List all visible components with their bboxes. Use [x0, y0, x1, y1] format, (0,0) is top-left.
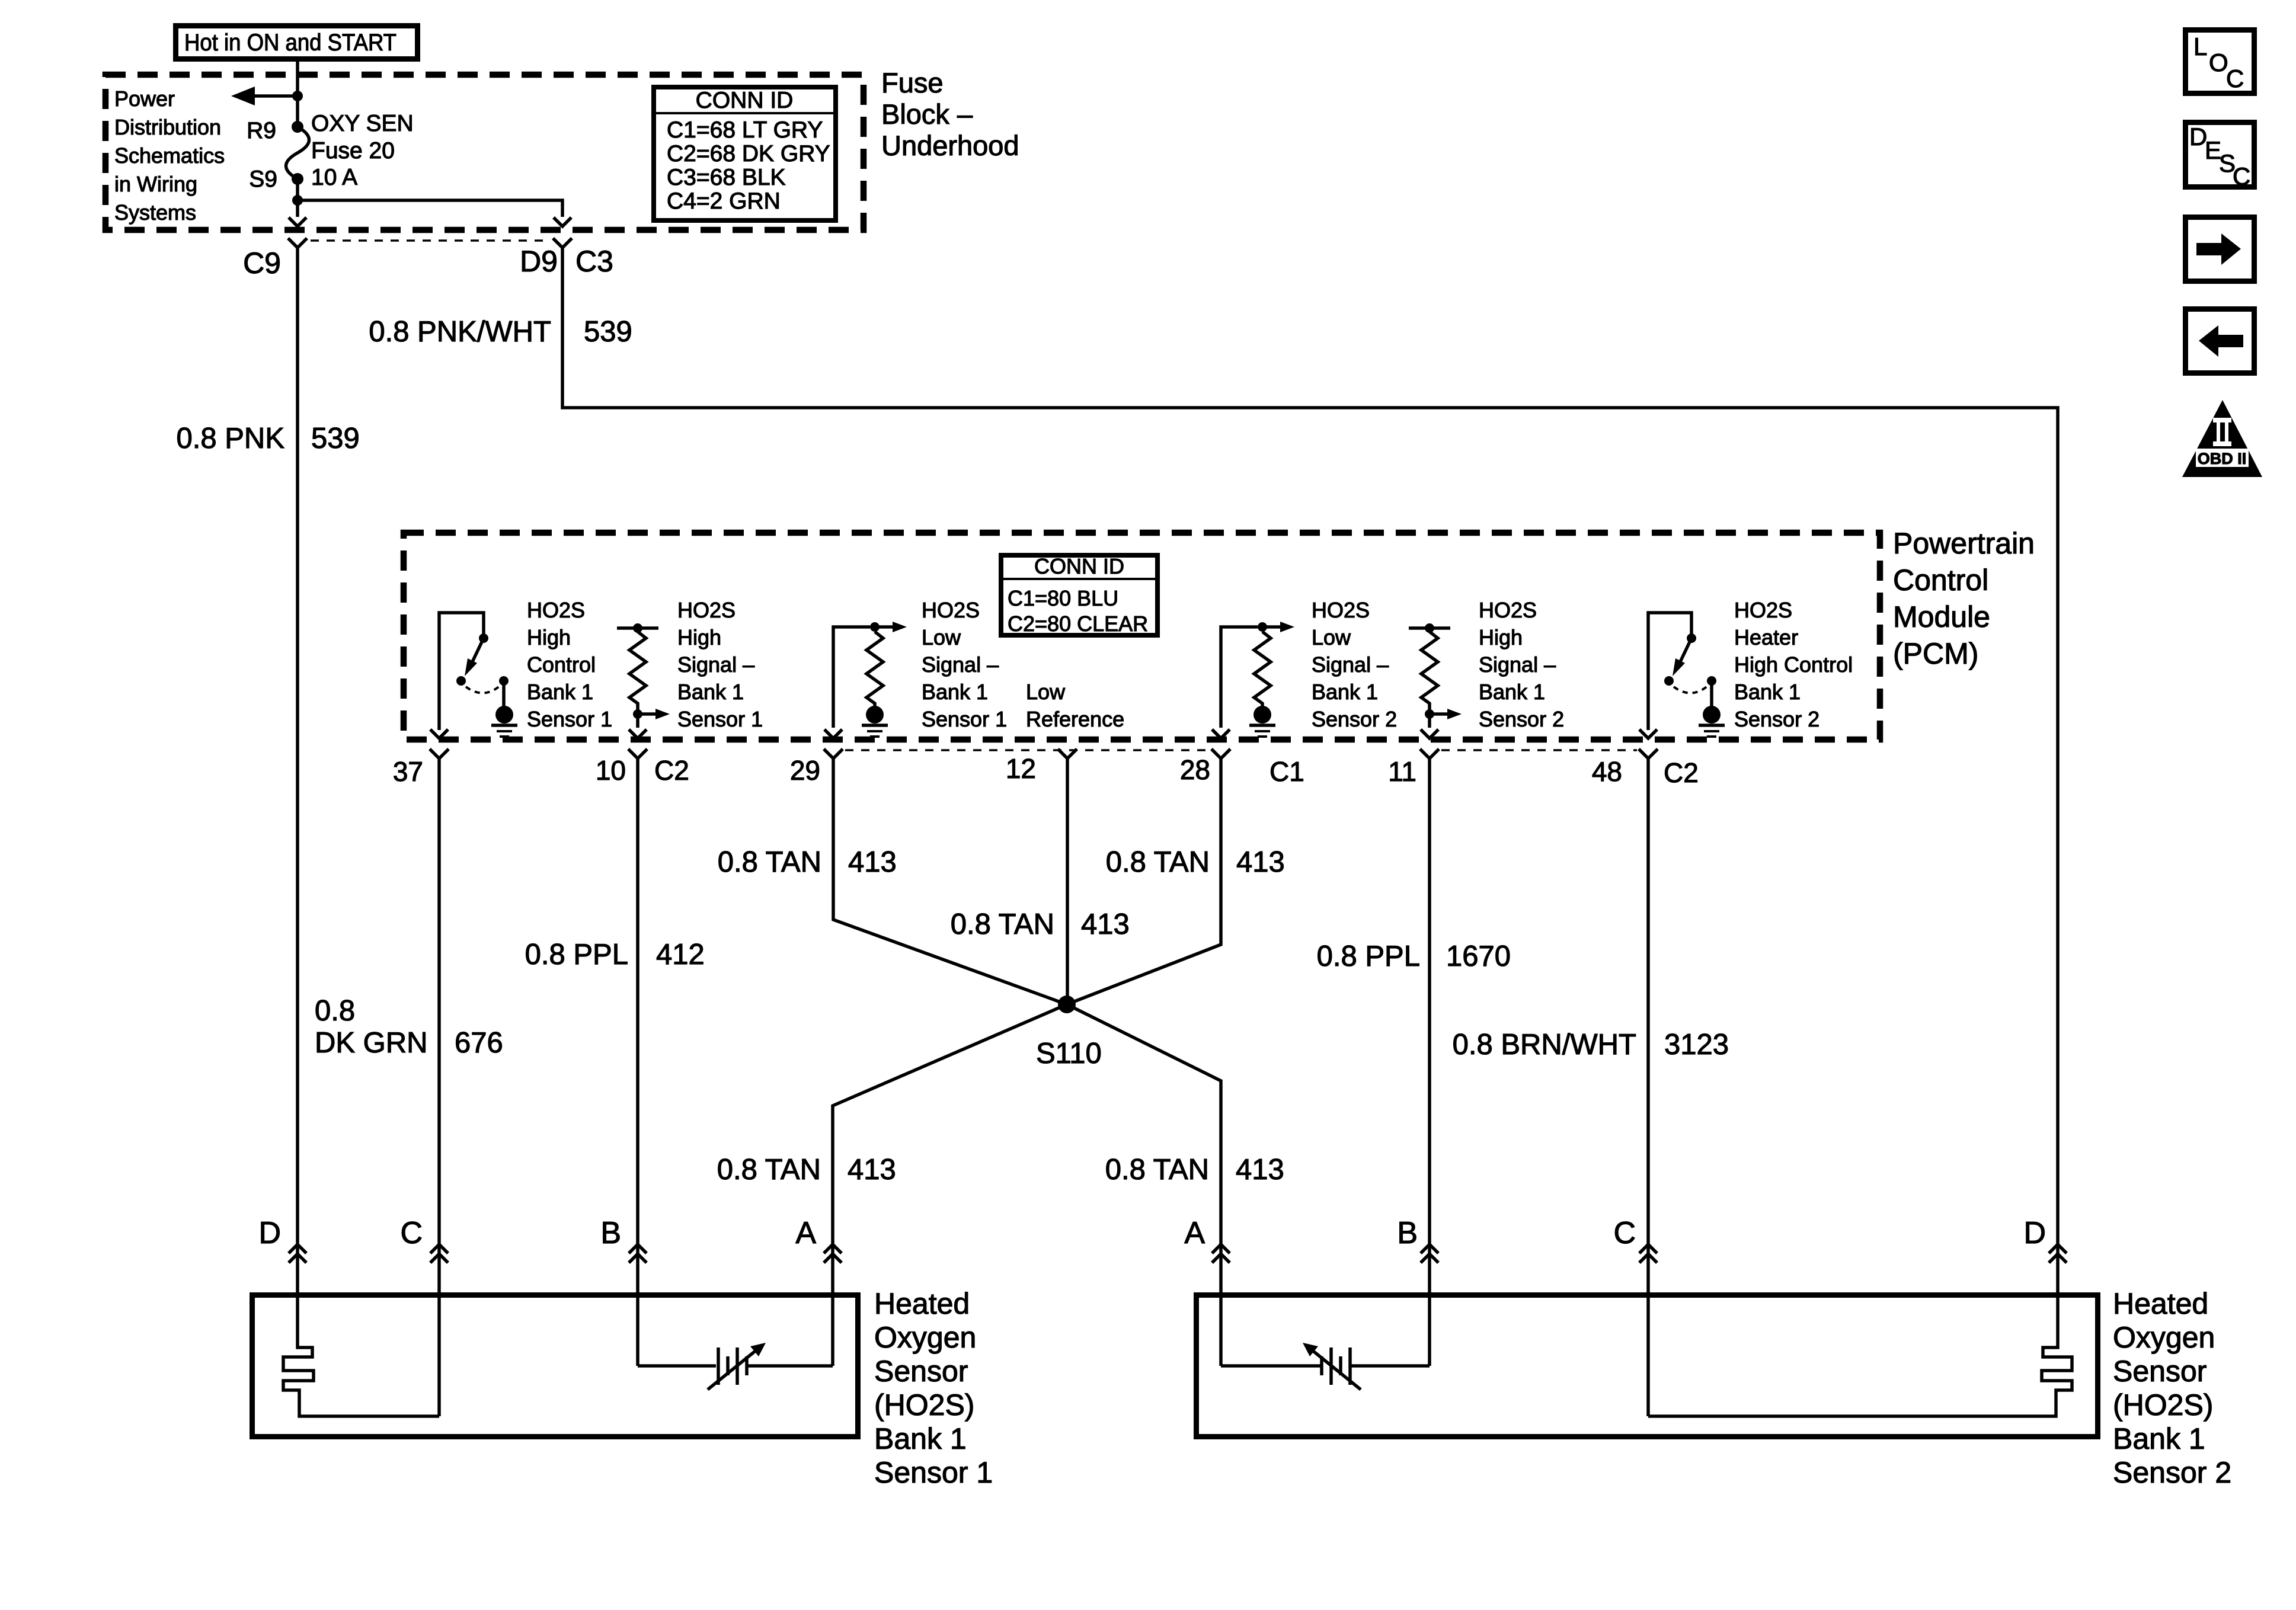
wire from fuse S9 down — [292, 179, 303, 217]
svg-text:C: C — [1613, 1216, 1636, 1250]
pin letter A sensor2 — [1184, 1216, 1205, 1250]
svg-text:10: 10 — [596, 755, 626, 786]
pin letter D sensor1 — [258, 1216, 281, 1250]
svg-text:Hot in ON and START: Hot in ON and START — [184, 30, 396, 56]
splice S110 — [1058, 996, 1076, 1013]
svg-text:Sensor 2: Sensor 2 — [1734, 707, 1819, 731]
svg-text:Control: Control — [1893, 564, 1988, 597]
svg-text:A: A — [795, 1216, 816, 1250]
svg-text:B: B — [1397, 1216, 1418, 1250]
connector label C9 — [243, 247, 281, 280]
connector chevrons sensor2 pin A — [1212, 1244, 1230, 1263]
svg-text:HO2S: HO2S — [1479, 598, 1537, 622]
svg-text:HO2S: HO2S — [1734, 598, 1792, 622]
switch U2 HO2S heater high control bank1 sensor2 — [1648, 613, 1716, 730]
connector Y pin 12 — [1058, 749, 1077, 758]
svg-text:High: High — [527, 625, 571, 649]
svg-text:Sensor 1: Sensor 1 — [527, 707, 612, 731]
svg-text:Sensor: Sensor — [2113, 1355, 2207, 1388]
wire label 0.8 TAN 413 center — [951, 908, 1130, 940]
connector chevrons sensor2 pin D — [2049, 1244, 2067, 1263]
svg-text:C3=68 BLK: C3=68 BLK — [667, 165, 786, 190]
wire C3 pink white to right sensor — [562, 248, 2058, 1292]
pin label 11 — [1388, 756, 1416, 787]
label Heated Oxygen Sensor (HO2S) Bank 1 Sensor 2 — [2113, 1287, 2231, 1489]
svg-text:C2=68 DK GRY: C2=68 DK GRY — [667, 141, 830, 167]
svg-text:0.8 TAN: 0.8 TAN — [717, 1154, 821, 1186]
conn id table fuse block — [654, 87, 836, 220]
svg-text:29: 29 — [790, 755, 820, 786]
pin label 29 — [790, 755, 820, 786]
svg-text:OXY SEN: OXY SEN — [311, 111, 414, 136]
svg-text:37: 37 — [393, 756, 423, 787]
pin letter D sensor2 — [2023, 1216, 2046, 1250]
svg-text:C4=2 GRN: C4=2 GRN — [667, 188, 781, 214]
fuse value label OXY SEN Fuse 20 10 A — [311, 111, 414, 190]
svg-text:0.8 PNK/WHT: 0.8 PNK/WHT — [369, 316, 551, 348]
svg-text:10 A: 10 A — [311, 165, 357, 190]
wire pin 37 to sensor1 pin C, dk grn — [437, 758, 441, 1292]
connector chevrons sensor2 pin C — [1639, 1244, 1657, 1263]
connector Y at C9 — [288, 238, 307, 248]
arrow at PCM border pin 29 — [824, 729, 842, 738]
svg-text:412: 412 — [656, 939, 705, 971]
label Fuse Block - Underhood — [881, 67, 1019, 161]
icon next arrow button — [2186, 217, 2255, 281]
ground inside PCM at switch U1 — [491, 706, 517, 737]
svg-text:Sensor 2: Sensor 2 — [2113, 1456, 2231, 1489]
connector chevrons sensor2 pin B — [1421, 1244, 1438, 1263]
svg-text:in Wiring: in Wiring — [114, 172, 197, 196]
terminal label R9 — [247, 118, 276, 143]
ground inside PCM at resistor R3 — [1249, 706, 1275, 737]
svg-text:Bank 1: Bank 1 — [874, 1422, 967, 1455]
pin label 48 — [1592, 756, 1622, 787]
pin label C1 — [1269, 756, 1304, 787]
resistor R2 HO2S low signal bank1 sensor1 — [833, 622, 907, 728]
pin letter A sensor1 — [795, 1216, 816, 1250]
svg-text:Block –: Block – — [881, 98, 973, 130]
wire pin 28 to splice S110 — [1067, 758, 1221, 1004]
wire pin 48 to sensor2 pin C, brn wht — [1646, 758, 1650, 1292]
svg-text:Low: Low — [1312, 625, 1351, 649]
wire pin 12 to splice S110 — [1066, 758, 1069, 1004]
svg-text:D: D — [2023, 1216, 2046, 1250]
svg-text:C1=68 LT GRY: C1=68 LT GRY — [667, 117, 823, 143]
svg-text:413: 413 — [848, 1154, 896, 1186]
svg-text:0.8 TAN: 0.8 TAN — [951, 908, 1054, 940]
svg-text:Low: Low — [1026, 680, 1066, 704]
wire S110 to sensor2 pin A — [1067, 1004, 1221, 1292]
svg-text:C: C — [2233, 162, 2250, 190]
label HO2S Low Signal - Bank 1 Sensor 2 — [1312, 598, 1397, 731]
pin label 12 — [1006, 753, 1036, 784]
wire label 0.8 TAN 413 lower right — [1105, 1154, 1284, 1186]
label HO2S Heater High Control Bank 1 Sensor 2 — [1734, 598, 1853, 731]
svg-text:Schematics: Schematics — [114, 143, 225, 168]
svg-text:High Control: High Control — [1734, 652, 1853, 677]
wire pin 10 to sensor1 pin B, ppl — [636, 758, 639, 1292]
svg-text:A: A — [1184, 1216, 1205, 1250]
svg-text:Oxygen: Oxygen — [2113, 1321, 2215, 1354]
icon previous arrow button — [2186, 309, 2255, 373]
connector label C3 — [575, 245, 613, 278]
connector Y pin 37 — [430, 749, 449, 758]
pin label 37 — [393, 756, 423, 787]
svg-text:HO2S: HO2S — [1312, 598, 1370, 622]
label HO2S Low Signal - Bank 1 Sensor 1 — [922, 598, 1007, 731]
svg-text:Signal –: Signal – — [1479, 652, 1556, 677]
connector chevrons sensor1 pin B — [629, 1244, 647, 1263]
svg-text:3123: 3123 — [1664, 1029, 1729, 1061]
label HO2S High Signal - Bank 1 Sensor 1 — [677, 598, 763, 731]
svg-text:Sensor 1: Sensor 1 — [922, 707, 1007, 731]
svg-text:Power: Power — [114, 87, 175, 111]
svg-text:Bank 1: Bank 1 — [1312, 680, 1378, 704]
svg-text:O: O — [2209, 49, 2228, 76]
svg-text:C3: C3 — [575, 245, 613, 278]
svg-text:Module: Module — [1893, 600, 1990, 633]
svg-text:Sensor 2: Sensor 2 — [1479, 707, 1564, 731]
connector dashed line C9 to D9 — [311, 239, 549, 242]
wire pin 29 to splice S110 — [833, 758, 1067, 1004]
label HO2S High Control Bank 1 Sensor 1 — [527, 598, 612, 731]
svg-text:12: 12 — [1006, 753, 1036, 784]
svg-text:(HO2S): (HO2S) — [874, 1388, 974, 1422]
icon LOC button — [2186, 30, 2255, 94]
svg-text:(PCM): (PCM) — [1893, 637, 1978, 670]
pin letter B sensor1 — [600, 1216, 621, 1250]
svg-text:DK GRN: DK GRN — [315, 1027, 428, 1059]
wire label 0.8 PNK 539 — [177, 422, 360, 454]
svg-text:C1=80 BLU: C1=80 BLU — [1008, 586, 1118, 610]
svg-text:CONN ID: CONN ID — [1034, 554, 1124, 578]
connector label D9 — [520, 245, 558, 278]
svg-text:539: 539 — [311, 422, 360, 454]
svg-text:0.8: 0.8 — [315, 995, 355, 1027]
connector chevrons sensor1 pin C — [430, 1244, 448, 1263]
svg-text:676: 676 — [455, 1027, 503, 1059]
svg-text:Sensor 1: Sensor 1 — [677, 707, 763, 731]
pin label 28 — [1180, 754, 1210, 785]
svg-text:1670: 1670 — [1446, 940, 1511, 972]
splice label S110 — [1036, 1038, 1102, 1070]
svg-text:CONN ID: CONN ID — [696, 88, 794, 113]
resistor R3 HO2S low signal bank1 sensor2 — [1221, 622, 1294, 728]
svg-text:413: 413 — [1081, 908, 1130, 940]
svg-text:Sensor: Sensor — [874, 1355, 968, 1388]
svg-text:Heated: Heated — [2113, 1287, 2208, 1320]
svg-text:Bank 1: Bank 1 — [1479, 680, 1545, 704]
oxygen sensing element sensor1 — [638, 1292, 833, 1390]
terminal label S9 — [249, 167, 277, 192]
svg-text:Heater: Heater — [1734, 625, 1798, 649]
svg-text:0.8 PPL: 0.8 PPL — [1317, 940, 1420, 972]
svg-text:539: 539 — [584, 316, 632, 348]
connector chevrons sensor1 pin D — [289, 1244, 306, 1263]
svg-text:Low: Low — [922, 625, 961, 649]
pin label C2 left — [654, 755, 689, 786]
svg-text:Sensor 1: Sensor 1 — [874, 1456, 993, 1489]
svg-text:S110: S110 — [1036, 1038, 1102, 1070]
svg-text:C9: C9 — [243, 247, 281, 280]
heater element sensor1 — [283, 1292, 439, 1416]
svg-text:Signal –: Signal – — [677, 652, 754, 677]
connector Y pin 29 — [824, 749, 843, 758]
wire label 0.8 DK GRN 676 — [315, 995, 503, 1059]
ground inside PCM at resistor R2 — [862, 706, 888, 737]
conn id table pcm — [1001, 554, 1157, 636]
arrow at PCM border pin 10 — [629, 729, 647, 738]
label Power Distribution Schematics in Wiring Systems — [114, 87, 225, 225]
svg-text:S9: S9 — [249, 167, 277, 192]
svg-text:HO2S: HO2S — [677, 598, 736, 622]
fuse OXY SEN Fuse 20 10 A — [286, 121, 309, 185]
wire pin 11 to sensor2 pin B, ppl — [1428, 758, 1431, 1292]
svg-text:Systems: Systems — [114, 200, 196, 225]
wire label 0.8 BRN/WHT 3123 — [1453, 1029, 1729, 1061]
fuse block dashed box — [105, 75, 864, 230]
PCM dashed box — [404, 533, 1880, 740]
ground inside PCM at switch U2 — [1699, 706, 1725, 737]
arrow to power distribution — [231, 87, 303, 105]
arrow at PCM border pin 37 — [430, 729, 448, 738]
svg-text:Control: Control — [527, 652, 596, 677]
arrow at fuse block border C9 — [289, 217, 306, 226]
label HO2S High Signal - Bank 1 Sensor 2 — [1479, 598, 1564, 731]
svg-text:11: 11 — [1388, 756, 1416, 787]
wire C9 pink to left sensor — [296, 248, 299, 1292]
pin label 10 — [596, 755, 626, 786]
svg-text:Bank 1: Bank 1 — [2113, 1422, 2205, 1455]
label box Hot in ON and START — [176, 26, 418, 59]
svg-text:0.8 TAN: 0.8 TAN — [1106, 846, 1210, 878]
svg-text:0.8 TAN: 0.8 TAN — [718, 846, 821, 878]
svg-text:High: High — [1479, 625, 1523, 649]
svg-text:Bank 1: Bank 1 — [527, 680, 593, 704]
connector C1 dashed line — [845, 749, 1210, 751]
arrow at PCM border pin 11 — [1421, 729, 1438, 738]
svg-text:Oxygen: Oxygen — [874, 1321, 976, 1354]
pin label C2 right — [1664, 757, 1699, 788]
sensor2 box heated oxygen sensor bank1 sensor2 — [1197, 1295, 2098, 1437]
svg-text:Fuse: Fuse — [881, 67, 944, 98]
svg-text:C1: C1 — [1269, 756, 1304, 787]
wire label 0.8 TAN 413 upper right — [1106, 846, 1285, 878]
svg-text:0.8 PPL: 0.8 PPL — [525, 939, 628, 971]
wire S110 to sensor1 pin A — [833, 1004, 1067, 1292]
svg-text:C: C — [400, 1216, 423, 1250]
wire label 0.8 PNK/WHT 539 — [369, 316, 632, 348]
oxygen sensing element sensor2 — [1221, 1292, 1430, 1390]
svg-text:Sensor 2: Sensor 2 — [1312, 707, 1397, 731]
svg-text:413: 413 — [1236, 1154, 1284, 1186]
connector Y pin 48 — [1639, 749, 1658, 758]
wire from hot box into fuse block — [296, 62, 299, 127]
connector C2 dashed line — [1441, 749, 1637, 751]
wire label 0.8 PPL 412 — [525, 939, 705, 971]
label Low Reference — [1026, 680, 1124, 731]
arrow at PCM border pin 48 — [1639, 729, 1657, 738]
svg-text:0.8 TAN: 0.8 TAN — [1105, 1154, 1209, 1186]
switch U1 HO2S high control bank1 sensor1 — [439, 613, 509, 730]
svg-text:Fuse 20: Fuse 20 — [311, 138, 395, 164]
icon DESC button — [2186, 123, 2255, 191]
connector chevrons sensor1 pin A — [824, 1244, 842, 1263]
arrow at PCM border pin 28 — [1212, 729, 1230, 738]
svg-text:0.8 BRN/WHT: 0.8 BRN/WHT — [1453, 1029, 1636, 1061]
wire branch to D9 — [298, 200, 562, 217]
label Heated Oxygen Sensor (HO2S) Bank 1 Sensor 1 — [874, 1287, 993, 1489]
svg-text:0.8 PNK: 0.8 PNK — [177, 422, 285, 454]
svg-text:Signal –: Signal – — [1312, 652, 1389, 677]
svg-text:Bank 1: Bank 1 — [922, 680, 988, 704]
pin letter C sensor1 — [400, 1216, 423, 1250]
svg-text:Signal –: Signal – — [922, 652, 999, 677]
svg-text:Reference: Reference — [1026, 707, 1124, 731]
svg-text:Distribution: Distribution — [114, 115, 221, 139]
heater element sensor2 — [1648, 1292, 2072, 1416]
svg-text:413: 413 — [848, 846, 897, 878]
svg-text:C2: C2 — [1664, 757, 1699, 788]
svg-text:Powertrain: Powertrain — [1893, 527, 2035, 560]
wire label 0.8 TAN 413 lower left — [717, 1154, 896, 1186]
connector Y at D9 — [553, 238, 572, 248]
wire label 0.8 TAN 413 upper left — [718, 846, 897, 878]
svg-text:(HO2S): (HO2S) — [2113, 1388, 2213, 1422]
svg-text:High: High — [677, 625, 721, 649]
svg-text:OBD II: OBD II — [2198, 450, 2247, 468]
svg-text:R9: R9 — [247, 118, 276, 143]
connector Y pin 11 — [1420, 749, 1439, 758]
wire label 0.8 PPL 1670 — [1317, 940, 1511, 972]
svg-text:28: 28 — [1180, 754, 1210, 785]
svg-text:C2: C2 — [654, 755, 689, 786]
icon OBD II badge — [2182, 400, 2262, 477]
pin letter C sensor2 — [1613, 1216, 1636, 1250]
svg-text:Underhood: Underhood — [881, 130, 1019, 161]
svg-text:HO2S: HO2S — [527, 598, 585, 622]
connector Y pin 28 — [1211, 749, 1230, 758]
svg-text:413: 413 — [1236, 846, 1285, 878]
svg-text:L: L — [2193, 33, 2207, 60]
svg-text:D: D — [258, 1216, 281, 1250]
resistor R4 HO2S high signal bank1 sensor2 — [1409, 623, 1462, 728]
svg-text:B: B — [600, 1216, 621, 1250]
svg-text:Bank 1: Bank 1 — [677, 680, 744, 704]
connector Y pin 10 — [628, 749, 647, 758]
svg-text:D9: D9 — [520, 245, 558, 278]
svg-text:C2=80 CLEAR: C2=80 CLEAR — [1008, 612, 1148, 636]
resistor R1 HO2S high signal bank1 sensor1 — [617, 623, 670, 728]
svg-text:C: C — [2226, 65, 2244, 92]
sensor1 box heated oxygen sensor bank1 sensor1 — [252, 1295, 858, 1437]
svg-text:Heated: Heated — [874, 1287, 970, 1320]
svg-text:48: 48 — [1592, 756, 1622, 787]
svg-text:Bank 1: Bank 1 — [1734, 680, 1801, 704]
pin letter B sensor2 — [1397, 1216, 1418, 1250]
arrow at fuse block border D9 — [554, 217, 571, 226]
label Powertrain Control Module (PCM) — [1893, 527, 2035, 670]
svg-text:HO2S: HO2S — [922, 598, 980, 622]
